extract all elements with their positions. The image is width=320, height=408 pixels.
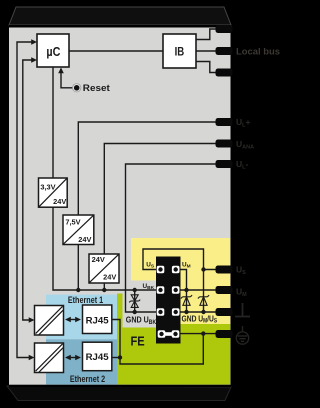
pad UL+ bbox=[216, 118, 233, 126]
wire UANA to 24V converter bbox=[104, 144, 228, 255]
ground symbol bbox=[235, 303, 250, 317]
node D1 bottom bbox=[184, 310, 188, 314]
svg-text:IB: IB bbox=[175, 46, 185, 58]
arrowhead Reset into uC bbox=[58, 68, 64, 74]
wire 3,3V converter to 24V bus bbox=[53, 207, 161, 290]
node D2 bottom bbox=[201, 310, 205, 314]
Ethernet 1 blue region bbox=[46, 295, 117, 340]
wire line B (uC to opto1) bbox=[23, 60, 32, 320]
wire line A (uC to opto2) bbox=[17, 42, 32, 358]
gray notch band (GND UBK area) bbox=[122, 281, 157, 328]
double arrow opto1-RJ45-1 bbox=[65, 317, 81, 323]
node 7,5V on 24V bus bbox=[76, 288, 80, 292]
pad FE bbox=[216, 330, 233, 338]
wire diode D1 branch bbox=[186, 290, 188, 312]
svg-text:3,3V: 3,3V bbox=[40, 183, 55, 192]
pad GND bbox=[216, 308, 233, 316]
svg-text:Ethernet 1: Ethernet 1 bbox=[68, 295, 103, 305]
pad UL- bbox=[216, 160, 233, 168]
arrowhead into opto1 bbox=[29, 317, 35, 323]
RJ45 block 2 bbox=[83, 342, 112, 371]
device front face bbox=[9, 25, 231, 387]
wire RJ45-2 to FE bbox=[112, 357, 120, 359]
suppressor diode (zener pair) bbox=[129, 295, 140, 308]
svg-text:24V: 24V bbox=[92, 255, 105, 264]
wire US pin over block to US pad bbox=[143, 249, 216, 270]
node zener top bbox=[133, 288, 137, 292]
svg-text:FE: FE bbox=[131, 333, 145, 348]
svg-text:Local bus: Local bus bbox=[236, 46, 280, 56]
green FE region below gray band bbox=[122, 328, 158, 385]
block IB bbox=[163, 34, 196, 68]
pin UBK bbox=[157, 286, 165, 294]
yellow region (relay/supply area) bbox=[131, 238, 230, 324]
wire UL+ to 7,5V converter bbox=[78, 122, 228, 215]
wire 7,5V converter to 24V bus bbox=[77, 245, 79, 291]
wire GND UM/US bus to ground pad bbox=[176, 311, 216, 313]
functional earth symbol bbox=[236, 326, 248, 344]
wire UL- to GND UBK bbox=[126, 164, 229, 312]
wire uC to IB bbox=[69, 50, 163, 52]
pin US bbox=[157, 266, 165, 274]
wire Reset to uC bbox=[61, 69, 73, 88]
svg-text:Ethernet 2: Ethernet 2 bbox=[70, 374, 105, 384]
jumper link bar bbox=[160, 332, 177, 336]
wire 24V converter to 24V bus bbox=[103, 283, 105, 290]
pin UM bus bbox=[172, 286, 180, 294]
Reset dot bbox=[73, 84, 81, 92]
wire IB to local bus pad 2 bbox=[196, 50, 216, 52]
pad local bus 2 bbox=[216, 47, 233, 55]
pin GND UM/US bbox=[172, 308, 180, 316]
svg-text:24V: 24V bbox=[53, 197, 66, 206]
pad US bbox=[216, 266, 233, 274]
opto isolator 2 bbox=[35, 343, 64, 373]
device top face bbox=[9, 7, 231, 25]
svg-text:24V: 24V bbox=[103, 272, 116, 281]
wire IB to local bus pad 1 bbox=[196, 29, 216, 40]
node 24V conv on 24V bus bbox=[102, 288, 106, 292]
svg-text:RJ45: RJ45 bbox=[86, 315, 109, 325]
wire UM pin down to UM bus bbox=[181, 270, 187, 291]
arrowhead into opto2 bbox=[29, 355, 35, 361]
node D2 top bbox=[201, 267, 205, 271]
node RJ45 FE junction bbox=[118, 355, 122, 359]
pin jumper right bbox=[172, 330, 180, 338]
connector pads right edge bbox=[216, 25, 233, 338]
junction dots bbox=[76, 267, 206, 359]
wire zener branch bbox=[134, 290, 136, 312]
converter 3,3V/24V bbox=[39, 178, 68, 207]
wire IB to local bus pad 3 bbox=[196, 62, 216, 73]
svg-text:RJ45: RJ45 bbox=[86, 352, 109, 362]
op block uC bbox=[37, 34, 69, 67]
diode D1 bbox=[181, 295, 192, 305]
diode D2 bbox=[198, 295, 209, 305]
svg-text:24V: 24V bbox=[78, 235, 91, 244]
green FE region below block bbox=[156, 344, 181, 385]
svg-text:µC: µC bbox=[46, 45, 60, 59]
wire uC to 3,3V converter bbox=[52, 67, 54, 178]
wire RJ45-1 to FE bbox=[112, 320, 204, 365]
double arrow opto2-RJ45-2 bbox=[65, 355, 81, 361]
wire diode D2 branch bbox=[203, 270, 205, 313]
node FE junction bbox=[201, 331, 205, 335]
svg-text:7,5V: 7,5V bbox=[65, 218, 80, 227]
pad local bus 1 bbox=[216, 25, 233, 33]
pad UM bbox=[216, 286, 233, 294]
node zener bottom bbox=[133, 310, 137, 314]
pin GND UBK bbox=[157, 308, 165, 316]
arrowhead into uC top bbox=[31, 39, 37, 45]
pad local bus 3 bbox=[216, 69, 233, 77]
svg-text:Reset: Reset bbox=[83, 82, 110, 93]
pin jumper left bbox=[158, 330, 166, 338]
pin UM bbox=[172, 266, 180, 274]
Ethernet 2 blue region bbox=[46, 339, 117, 384]
device bottom face bbox=[7, 386, 231, 401]
node D1 top bbox=[184, 288, 188, 292]
opto isolator 1 bbox=[35, 306, 64, 336]
green FE region strip bbox=[117, 294, 123, 385]
green FE region right part bbox=[180, 324, 230, 385]
converter 7,5V/24V bbox=[63, 215, 94, 245]
svg-text:GND UM/US: GND UM/US bbox=[182, 314, 218, 325]
RJ45 block 1 bbox=[83, 305, 112, 334]
wire jumper to FE pad bbox=[178, 333, 216, 335]
wire UM bus to UM pad bbox=[176, 289, 216, 291]
isolation block (black) bbox=[156, 257, 181, 344]
converter 24V/24V bbox=[89, 254, 119, 283]
pad UANA bbox=[216, 140, 233, 148]
arrowhead into uC bottom bbox=[31, 57, 37, 63]
block pins bbox=[157, 266, 180, 338]
